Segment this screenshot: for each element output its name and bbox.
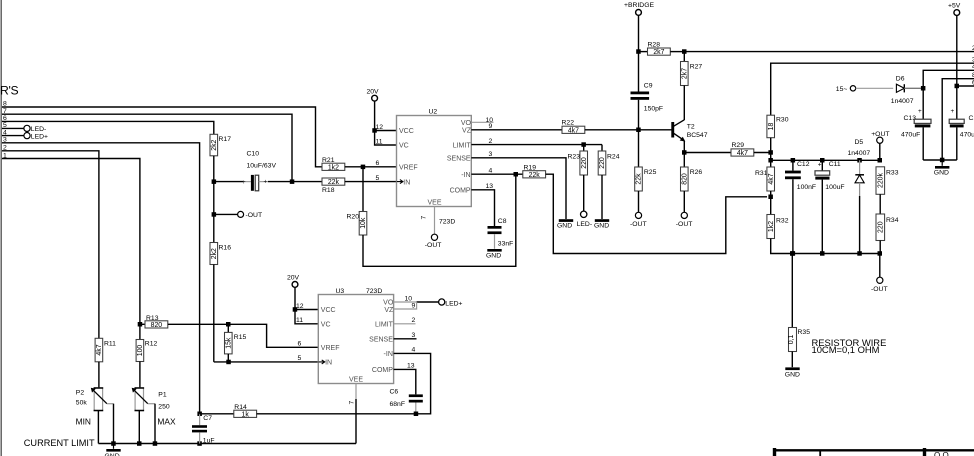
svg-text:3: 3 bbox=[412, 332, 416, 339]
title block top line bbox=[774, 449, 974, 451]
svg-text:VREF: VREF bbox=[321, 345, 340, 352]
svg-text:100: 100 bbox=[137, 345, 144, 357]
svg-text:R35: R35 bbox=[798, 329, 811, 336]
svg-text:-OUT: -OUT bbox=[871, 286, 888, 293]
svg-text:+OUT: +OUT bbox=[871, 131, 889, 138]
terminal LED+ bbox=[439, 299, 445, 305]
svg-text:+5V: +5V bbox=[948, 2, 961, 9]
svg-text:R12: R12 bbox=[145, 340, 158, 347]
junction R15 bottom on +IN line bbox=[226, 360, 231, 365]
svg-text:D5: D5 bbox=[855, 139, 864, 146]
svg-text:COMP: COMP bbox=[372, 367, 393, 374]
svg-text:9: 9 bbox=[489, 123, 493, 130]
ground symbol under rail bbox=[105, 444, 121, 456]
wire divider segment bbox=[213, 182, 215, 215]
output bottom rail bbox=[792, 253, 880, 255]
terminal +OUT bbox=[871, 131, 889, 163]
svg-text:15k: 15k bbox=[226, 337, 233, 349]
junction R29/R30 bbox=[768, 150, 773, 155]
terminal LED+ bbox=[24, 133, 30, 139]
resistor R34 220 bbox=[876, 214, 899, 254]
pin 3 SENSE wire to GND bbox=[471, 158, 566, 219]
resistor R15 bbox=[225, 324, 247, 362]
diode D6 1n4007 bbox=[891, 76, 923, 106]
output top rail bbox=[771, 159, 880, 161]
svg-text:+: + bbox=[818, 161, 822, 168]
resistor R28 2k7 bbox=[639, 42, 685, 57]
svg-text:LIMIT: LIMIT bbox=[375, 322, 394, 329]
svg-text:CURRENT LIMIT: CURRENT LIMIT bbox=[24, 438, 95, 448]
svg-text:3: 3 bbox=[489, 151, 493, 158]
junction +BRIDGE/R28 bbox=[636, 49, 641, 54]
svg-text:R29: R29 bbox=[732, 142, 745, 149]
svg-text:4: 4 bbox=[489, 167, 493, 174]
svg-text:220: 220 bbox=[878, 221, 885, 233]
junction at R17/C10 bbox=[212, 179, 217, 184]
capacitor C8 33nF bbox=[488, 218, 514, 249]
svg-text:7: 7 bbox=[349, 401, 356, 405]
svg-text:0,1: 0,1 bbox=[788, 335, 795, 345]
supply terminal 20V (U3) bbox=[287, 275, 300, 310]
svg-text:+: + bbox=[242, 179, 246, 186]
svg-text:2k7: 2k7 bbox=[653, 49, 664, 56]
svg-text:150pF: 150pF bbox=[644, 105, 663, 112]
junction -IN/R19 bbox=[514, 172, 519, 177]
svg-text:33nF: 33nF bbox=[498, 240, 514, 247]
pin 3 SENSE stub bbox=[394, 338, 417, 340]
svg-text:1k2: 1k2 bbox=[328, 164, 339, 171]
ground rail of 5V supply bbox=[923, 159, 957, 161]
svg-text:R20: R20 bbox=[347, 213, 360, 220]
terminal 15~ bbox=[836, 86, 893, 93]
svg-text:BC547: BC547 bbox=[687, 132, 708, 139]
svg-text:P2: P2 bbox=[76, 389, 85, 396]
wire net8 bbox=[2, 107, 322, 167]
junction C9/base line bbox=[636, 128, 641, 133]
svg-text:1uF: 1uF bbox=[203, 438, 215, 445]
svg-text:250: 250 bbox=[158, 403, 170, 410]
svg-text:C10: C10 bbox=[247, 151, 260, 158]
capacitor C6 68nF bbox=[390, 389, 423, 414]
svg-text:O O: O O bbox=[934, 451, 949, 456]
svg-text:R30: R30 bbox=[776, 117, 789, 124]
svg-text:-OUT: -OUT bbox=[630, 221, 647, 228]
resistor R33 220k bbox=[876, 167, 899, 214]
svg-text:18: 18 bbox=[768, 123, 775, 131]
svg-text:22k: 22k bbox=[529, 172, 541, 179]
svg-text:10k: 10k bbox=[360, 217, 367, 229]
op-amp U2 (723D) bbox=[397, 109, 472, 207]
resistor R20 10k bbox=[347, 167, 368, 235]
resistor R18 22k bbox=[292, 175, 397, 194]
svg-text:723D: 723D bbox=[439, 219, 455, 226]
svg-text:COMP: COMP bbox=[450, 188, 471, 195]
svg-text:820: 820 bbox=[682, 173, 689, 185]
svg-text:GND: GND bbox=[486, 252, 501, 259]
resistor R29 4k7 bbox=[684, 142, 771, 157]
svg-text:2: 2 bbox=[412, 317, 416, 324]
resistor R26 820 bbox=[681, 167, 703, 213]
svg-text:IN: IN bbox=[325, 360, 332, 367]
svg-text:1n4007: 1n4007 bbox=[891, 98, 914, 105]
svg-text:2k7: 2k7 bbox=[682, 68, 689, 79]
capacitor C13 470uF bbox=[901, 108, 931, 160]
svg-text:220k: 220k bbox=[878, 172, 885, 187]
svg-text:100uF: 100uF bbox=[825, 184, 844, 191]
svg-text:VCC: VCC bbox=[321, 307, 336, 314]
wire regulator GND pin bbox=[942, 79, 974, 160]
wire R20 bottom loop to -IN bbox=[363, 174, 516, 266]
supply terminal +BRIDGE bbox=[624, 2, 654, 92]
svg-text:4k7: 4k7 bbox=[768, 173, 775, 184]
svg-text:R17: R17 bbox=[219, 136, 232, 143]
svg-text:9: 9 bbox=[412, 302, 416, 309]
svg-text:7: 7 bbox=[421, 216, 428, 220]
junction P2 wiper bbox=[111, 441, 116, 446]
title block tick left bbox=[773, 448, 776, 456]
svg-text:C8: C8 bbox=[498, 218, 507, 225]
resistor R35 0,1 (resistor wire) bbox=[788, 254, 810, 368]
junction U3 VCC bbox=[293, 307, 298, 312]
op-amp U3 (723D) bbox=[318, 288, 394, 384]
svg-text:10CM=0,1 OHM: 10CM=0,1 OHM bbox=[812, 344, 880, 355]
svg-text:220: 220 bbox=[581, 157, 588, 169]
svg-text:22k: 22k bbox=[328, 179, 340, 186]
ground under C8 bbox=[486, 249, 502, 259]
svg-text:R25: R25 bbox=[644, 169, 657, 176]
wire to right-edge regulator pin bbox=[684, 51, 974, 53]
svg-text:GND: GND bbox=[557, 222, 572, 229]
svg-text:C7: C7 bbox=[203, 415, 212, 422]
junction P1 wiper bbox=[153, 441, 158, 446]
svg-text:VZ: VZ bbox=[462, 128, 472, 135]
svg-text:R18: R18 bbox=[322, 187, 335, 194]
wire to LED- terminal bbox=[2, 127, 24, 129]
resistor R13 bbox=[140, 315, 318, 348]
wire rectifier node to edge pin bbox=[923, 70, 974, 119]
svg-text:4k7: 4k7 bbox=[737, 150, 748, 157]
svg-text:R'S: R'S bbox=[0, 84, 19, 98]
svg-text:C12: C12 bbox=[797, 161, 810, 168]
capacitor C9 150pF bbox=[631, 83, 664, 167]
svg-text:R24: R24 bbox=[607, 153, 620, 160]
junction C7 bottom bbox=[197, 441, 202, 446]
svg-text:P1: P1 bbox=[158, 392, 167, 399]
svg-text:LED-: LED- bbox=[577, 221, 593, 228]
svg-text:GND: GND bbox=[785, 372, 800, 379]
resistor R25 22k bbox=[635, 167, 657, 213]
svg-text:T2: T2 bbox=[687, 123, 695, 130]
svg-text:R34: R34 bbox=[886, 217, 899, 224]
svg-text:4: 4 bbox=[412, 347, 416, 354]
resistor R12 bbox=[136, 340, 157, 388]
wire +IN line of U3 bbox=[214, 361, 318, 363]
svg-text:11: 11 bbox=[376, 138, 383, 145]
wire to LED+ terminal bbox=[2, 135, 24, 137]
svg-text:R23: R23 bbox=[568, 153, 581, 160]
junction R31/R32 feedback node bbox=[768, 195, 773, 200]
svg-text:4k7: 4k7 bbox=[96, 344, 103, 355]
pin 4 -IN wire bbox=[471, 173, 523, 175]
svg-text:R22: R22 bbox=[562, 119, 575, 126]
svg-text:4k7: 4k7 bbox=[568, 127, 579, 134]
svg-text:VC: VC bbox=[399, 143, 409, 150]
svg-text:R26: R26 bbox=[690, 169, 703, 176]
svg-text:11: 11 bbox=[296, 317, 303, 324]
svg-text:470uF: 470uF bbox=[960, 132, 974, 139]
svg-text:VC: VC bbox=[321, 322, 331, 329]
pin 9 VZ stub bbox=[394, 302, 417, 309]
resistor R22 4k7 bbox=[562, 119, 672, 134]
svg-text:VEE: VEE bbox=[427, 200, 441, 207]
junction GND rail bbox=[940, 158, 945, 163]
resistor R11 bbox=[95, 338, 116, 388]
svg-text:IN: IN bbox=[403, 179, 410, 186]
svg-text:R27: R27 bbox=[690, 63, 703, 70]
resistor R14 1k bbox=[200, 404, 416, 419]
svg-text:R32: R32 bbox=[776, 217, 789, 224]
resistor R24 220 bbox=[598, 145, 619, 219]
svg-text:LED+: LED+ bbox=[445, 301, 462, 308]
title block divider 2 bbox=[923, 448, 926, 456]
svg-text:VREF: VREF bbox=[399, 165, 418, 172]
terminal -OUT (under R26) bbox=[676, 212, 693, 228]
resistor R17 bbox=[210, 134, 231, 181]
diode D5 1n4007 bbox=[848, 139, 871, 256]
svg-text:20V: 20V bbox=[287, 275, 300, 282]
resistor R30 18 bbox=[767, 115, 789, 160]
svg-text:10uF/63V: 10uF/63V bbox=[247, 162, 277, 169]
ground rail (bottom) bbox=[98, 443, 356, 445]
svg-text:13: 13 bbox=[407, 362, 415, 369]
svg-text:R16: R16 bbox=[219, 244, 232, 251]
svg-text:C9: C9 bbox=[644, 83, 653, 90]
svg-text:5: 5 bbox=[376, 175, 380, 182]
junction +5V / regulator out bbox=[955, 84, 960, 89]
wire net6 bbox=[2, 121, 214, 134]
svg-text:6: 6 bbox=[298, 341, 302, 348]
svg-text:VO: VO bbox=[383, 300, 394, 307]
terminal -OUT (under R25) bbox=[630, 212, 647, 228]
junction U2 VCC bbox=[372, 128, 377, 133]
svg-text:R15: R15 bbox=[234, 334, 247, 341]
resistor R31 4k7 bbox=[755, 160, 775, 214]
junction D6/C13 bbox=[921, 86, 926, 91]
svg-text:20V: 20V bbox=[367, 89, 380, 96]
pin 4 -IN wire bbox=[394, 353, 431, 413]
junction -OUT stub on divider bbox=[212, 212, 217, 217]
svg-text:6: 6 bbox=[376, 160, 380, 167]
svg-text:1k2: 1k2 bbox=[768, 221, 775, 232]
svg-text:LED+: LED+ bbox=[31, 133, 48, 140]
svg-text:10: 10 bbox=[405, 295, 413, 302]
capacitor C7 1uF bbox=[192, 412, 215, 445]
svg-text:100nF: 100nF bbox=[797, 184, 816, 191]
resistor R19 22k bbox=[523, 164, 546, 179]
junction R31 top / output rail bbox=[768, 158, 773, 163]
svg-text:-IN: -IN bbox=[461, 172, 470, 179]
svg-text:-OUT: -OUT bbox=[676, 221, 693, 228]
wire net2 to R11 bbox=[2, 151, 99, 338]
svg-text:R31: R31 bbox=[755, 170, 768, 177]
svg-text:MAX: MAX bbox=[157, 416, 176, 426]
svg-text:C14: C14 bbox=[969, 115, 974, 122]
svg-text:R11: R11 bbox=[104, 341, 116, 348]
junction emitter/R29 bbox=[682, 150, 687, 155]
svg-text:-OUT: -OUT bbox=[246, 212, 263, 219]
svg-text:-OUT: -OUT bbox=[425, 242, 442, 249]
title block divider 1 bbox=[819, 450, 821, 456]
svg-text:+: + bbox=[951, 108, 955, 115]
svg-text:2k2: 2k2 bbox=[211, 139, 218, 150]
svg-text:VEE: VEE bbox=[349, 377, 363, 384]
svg-text:LED-: LED- bbox=[31, 126, 47, 133]
svg-text:2: 2 bbox=[489, 138, 493, 145]
pin 2 LIMIT stub bbox=[394, 323, 416, 325]
resistor R21 1k2 bbox=[322, 157, 397, 171]
pin 10 VO wire to LED+ bbox=[394, 301, 417, 303]
terminal -OUT (right) bbox=[871, 251, 888, 293]
junction R15 top bbox=[226, 322, 231, 327]
ground under R35 bbox=[785, 367, 800, 378]
svg-text:-IN: -IN bbox=[384, 351, 393, 358]
svg-text:220: 220 bbox=[599, 157, 606, 169]
junction LIMIT/R23 bbox=[581, 142, 586, 147]
capacitor C14 470uF (clipped) bbox=[949, 108, 974, 160]
svg-text:GND: GND bbox=[934, 170, 949, 177]
pin 7 VEE to -OUT bbox=[421, 207, 456, 249]
resistor R16 bbox=[210, 214, 231, 362]
svg-text:SENSE: SENSE bbox=[369, 337, 393, 344]
svg-text:+: + bbox=[918, 108, 922, 115]
wire R30 top to right edge bbox=[771, 63, 974, 115]
svg-text:5: 5 bbox=[298, 355, 302, 362]
svg-text:SENSE: SENSE bbox=[447, 156, 471, 163]
junction R28/R27 bbox=[682, 49, 687, 54]
pin 9 VZ wire to R22 bbox=[471, 129, 562, 131]
junction at C10/net7/R18 bbox=[290, 179, 295, 184]
ground under SENSE wire bbox=[557, 219, 573, 229]
svg-text:15~: 15~ bbox=[836, 86, 848, 93]
svg-text:VCC: VCC bbox=[399, 128, 414, 135]
capacitor C10 10uF/63V bbox=[214, 151, 292, 191]
svg-text:22k: 22k bbox=[636, 173, 643, 185]
junction P1 bottom bbox=[137, 441, 142, 446]
potentiometer P2 50k bbox=[76, 388, 114, 444]
svg-text:50k: 50k bbox=[76, 400, 88, 407]
pin 13 COMP wire bbox=[471, 190, 494, 226]
svg-text:GND: GND bbox=[594, 222, 609, 229]
wire to -OUT terminal bbox=[214, 213, 238, 215]
ground under R24 bbox=[594, 219, 609, 229]
resistor R23 220 bbox=[568, 145, 588, 211]
pin 7 VEE wire to ground rail bbox=[349, 384, 357, 444]
ground symbol (5V supply) bbox=[934, 160, 950, 177]
terminal LED- (under R23) bbox=[577, 211, 593, 228]
junction R13 on R12 line bbox=[138, 322, 143, 327]
svg-text:820: 820 bbox=[151, 322, 163, 329]
emitter wire down bbox=[683, 141, 685, 167]
resistor R27 2k7 bbox=[681, 52, 703, 120]
svg-text:470uF: 470uF bbox=[901, 132, 920, 139]
svg-text:MIN: MIN bbox=[76, 416, 91, 426]
junction VREF/R20 bbox=[361, 165, 366, 170]
capacitor C12 100nF bbox=[785, 158, 816, 256]
junction R35 top bbox=[790, 251, 795, 256]
wire net3 to C7/R14 node bbox=[2, 143, 200, 414]
pin 2 LIMIT wire to R23/R24 bbox=[471, 144, 602, 146]
svg-text:R33: R33 bbox=[886, 170, 899, 177]
terminal +5V bbox=[948, 2, 961, 119]
potentiometer P1 250 bbox=[132, 388, 176, 444]
svg-text:+: + bbox=[264, 179, 268, 185]
svg-text:+BRIDGE: +BRIDGE bbox=[624, 2, 654, 9]
svg-text:U2: U2 bbox=[429, 109, 438, 116]
svg-text:12: 12 bbox=[296, 303, 304, 310]
terminal LED- bbox=[24, 125, 30, 131]
junction C6 bottom bbox=[414, 412, 419, 417]
svg-text:1k: 1k bbox=[242, 411, 250, 418]
terminal -OUT (left) bbox=[238, 211, 244, 217]
svg-text:VO: VO bbox=[461, 120, 472, 127]
capacitor C11 100uF bbox=[815, 158, 845, 256]
resistor R32 1k2 bbox=[767, 215, 792, 254]
svg-text:68nF: 68nF bbox=[390, 401, 406, 408]
wire regulator out stub bbox=[957, 85, 974, 87]
svg-text:C11: C11 bbox=[829, 161, 841, 168]
svg-text:VZ: VZ bbox=[384, 307, 394, 314]
transistor T2 BC547 bbox=[671, 120, 707, 142]
svg-text:LIMIT: LIMIT bbox=[453, 142, 472, 149]
svg-text:2k2: 2k2 bbox=[211, 248, 218, 259]
svg-text:1n4007: 1n4007 bbox=[848, 150, 871, 157]
sheet border (left frame line) bbox=[0, 0, 2, 456]
supply terminal 20V (U2) bbox=[367, 89, 380, 131]
wire net1 to R12 bbox=[2, 159, 140, 340]
svg-text:C6: C6 bbox=[390, 389, 399, 396]
wire net7 bbox=[2, 114, 292, 181]
pin 10 VO stub bbox=[471, 121, 493, 123]
pin 13 COMP wire bbox=[394, 369, 416, 394]
svg-text:12: 12 bbox=[376, 124, 384, 131]
svg-text:13: 13 bbox=[486, 183, 494, 190]
svg-text:D6: D6 bbox=[896, 76, 905, 83]
wire R19 to R31/R32 node bbox=[546, 174, 767, 253]
